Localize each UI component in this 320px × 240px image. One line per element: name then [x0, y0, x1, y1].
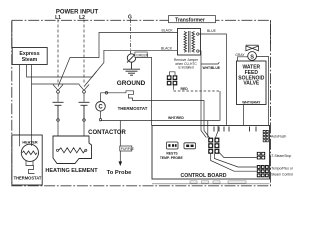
- svg-text:Transformer: Transformer: [175, 17, 205, 23]
- main grid connector: [208, 138, 219, 154]
- board bottom strip: [152, 181, 270, 184]
- svg-text:POWER INPUT: POWER INPUT: [56, 10, 99, 16]
- funnel extra wires: [216, 126, 219, 138]
- svg-text:GROUND: GROUND: [117, 80, 146, 87]
- wire L1 dashed: [57, 20, 59, 85]
- label GREEN: [135, 52, 147, 57]
- board top ticks: [214, 127, 256, 132]
- svg-text:BLACK: BLACK: [161, 46, 173, 50]
- svg-text:WHT/GRAY: WHT/GRAY: [242, 100, 261, 104]
- wire thermostat right to board: [137, 101, 210, 138]
- wire L2 dashed: [83, 20, 85, 85]
- svg-text:iTempo/Plus or: iTempo/Plus or: [271, 167, 294, 171]
- purple wire to probe: [107, 121, 135, 177]
- wire bus84: [31, 65, 33, 135]
- svg-text:AutoFlush: AutoFlush: [271, 135, 286, 139]
- svg-text:THERMOSTAT: THERMOSTAT: [118, 106, 148, 111]
- contactor coil C: [96, 93, 106, 121]
- svg-text:WHT/RED: WHT/RED: [168, 116, 184, 120]
- border top-left solid segment: [11, 20, 13, 47]
- ct-steamstop connector: [257, 152, 292, 160]
- wire whtred bus: [101, 121, 208, 138]
- power input label: [55, 10, 132, 22]
- water feed solenoid valve: [235, 20, 270, 125]
- svg-text:THERMOSTAT: THERMOSTAT: [14, 175, 42, 180]
- svg-text:TEMP. PROBE: TEMP. PROBE: [160, 156, 184, 160]
- res temp connectors: [160, 142, 196, 160]
- thermostat switch symbol: [126, 91, 137, 101]
- svg-text:GREEN: GREEN: [136, 53, 148, 57]
- valve bowtie: [246, 45, 259, 51]
- wire green: [136, 57, 152, 125]
- svg-text:RESTS: RESTS: [166, 152, 178, 156]
- svg-text:G: G: [128, 15, 132, 21]
- node terminal: [105, 92, 108, 95]
- svg-text:BLUE: BLUE: [207, 29, 217, 33]
- wire black1: L1 disconnect to transformer upper primary: [58, 33, 178, 87]
- ground connection circle: [127, 53, 136, 62]
- svg-text:BLACK: BLACK: [162, 28, 174, 32]
- svg-text:CONTACTOR: CONTACTOR: [88, 130, 126, 136]
- wire red dashed: [174, 90, 221, 92]
- svg-text:Steam: Steam: [22, 57, 38, 63]
- contactor contact L2: [79, 102, 90, 121]
- svg-text:To Probe: To Probe: [107, 170, 132, 176]
- wire G dash-dot: [130, 19, 132, 54]
- disconnect V at L1: [53, 85, 63, 102]
- control board box: [152, 126, 270, 180]
- itempo connector: [257, 165, 294, 177]
- svg-text:GRAY: GRAY: [235, 53, 245, 57]
- svg-text:HEATER: HEATER: [22, 140, 38, 144]
- wire thermostat left: [101, 92, 127, 94]
- svg-text:C: C: [98, 105, 103, 111]
- svg-text:HEATING ELEMENT: HEATING ELEMENT: [45, 168, 98, 174]
- svg-text:WHT/BLUE: WHT/BLUE: [203, 66, 221, 70]
- wire whtblue from transformer: [199, 51, 206, 138]
- svg-text:PURPLE: PURPLE: [121, 147, 135, 151]
- svg-text:CONTROL BOARD: CONTROL BOARD: [180, 173, 226, 179]
- ground symbol: [123, 62, 140, 75]
- heater thermostat box: [12, 135, 42, 186]
- wire blue: [200, 34, 227, 126]
- svg-text:S: S: [250, 54, 254, 60]
- enclosure dash-dot border: [12, 20, 271, 186]
- contactor contact L1: [53, 102, 64, 121]
- svg-text:RED: RED: [181, 87, 189, 91]
- jumper note: [174, 58, 199, 70]
- svg-text:VALVE: VALVE: [243, 81, 260, 87]
- autoflush connector: [263, 130, 287, 142]
- transformer: [169, 16, 216, 55]
- wire black2: express box to transformer lower primary: [19, 65, 21, 135]
- heating element: [53, 121, 92, 163]
- disconnect V at L2: [79, 85, 89, 102]
- wire branch to L2 disconnect: [84, 72, 97, 87]
- label WHT/BLUE: [201, 62, 219, 64]
- svg-text:is installed: is installed: [178, 66, 194, 70]
- grid fanout wires: [218, 151, 257, 157]
- svg-text:iSteam Control: iSteam Control: [271, 172, 294, 176]
- jumper connector block: [167, 72, 178, 90]
- svg-text:CT-SteamStop: CT-SteamStop: [269, 154, 291, 158]
- express steam box: [12, 48, 47, 65]
